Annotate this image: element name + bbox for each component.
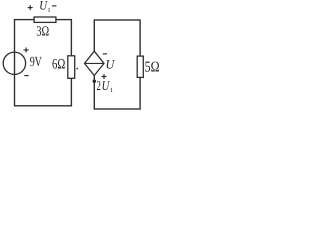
svg-text:U: U — [106, 57, 116, 72]
svg-text:U: U — [102, 78, 111, 93]
svg-text:6Ω: 6Ω — [52, 57, 65, 73]
svg-text:1: 1 — [110, 87, 113, 94]
svg-text:3Ω: 3Ω — [36, 25, 49, 40]
svg-text:1: 1 — [47, 7, 50, 14]
svg-text:9V: 9V — [30, 55, 42, 70]
svg-text:5Ω: 5Ω — [145, 60, 160, 76]
svg-text:2: 2 — [97, 78, 101, 93]
